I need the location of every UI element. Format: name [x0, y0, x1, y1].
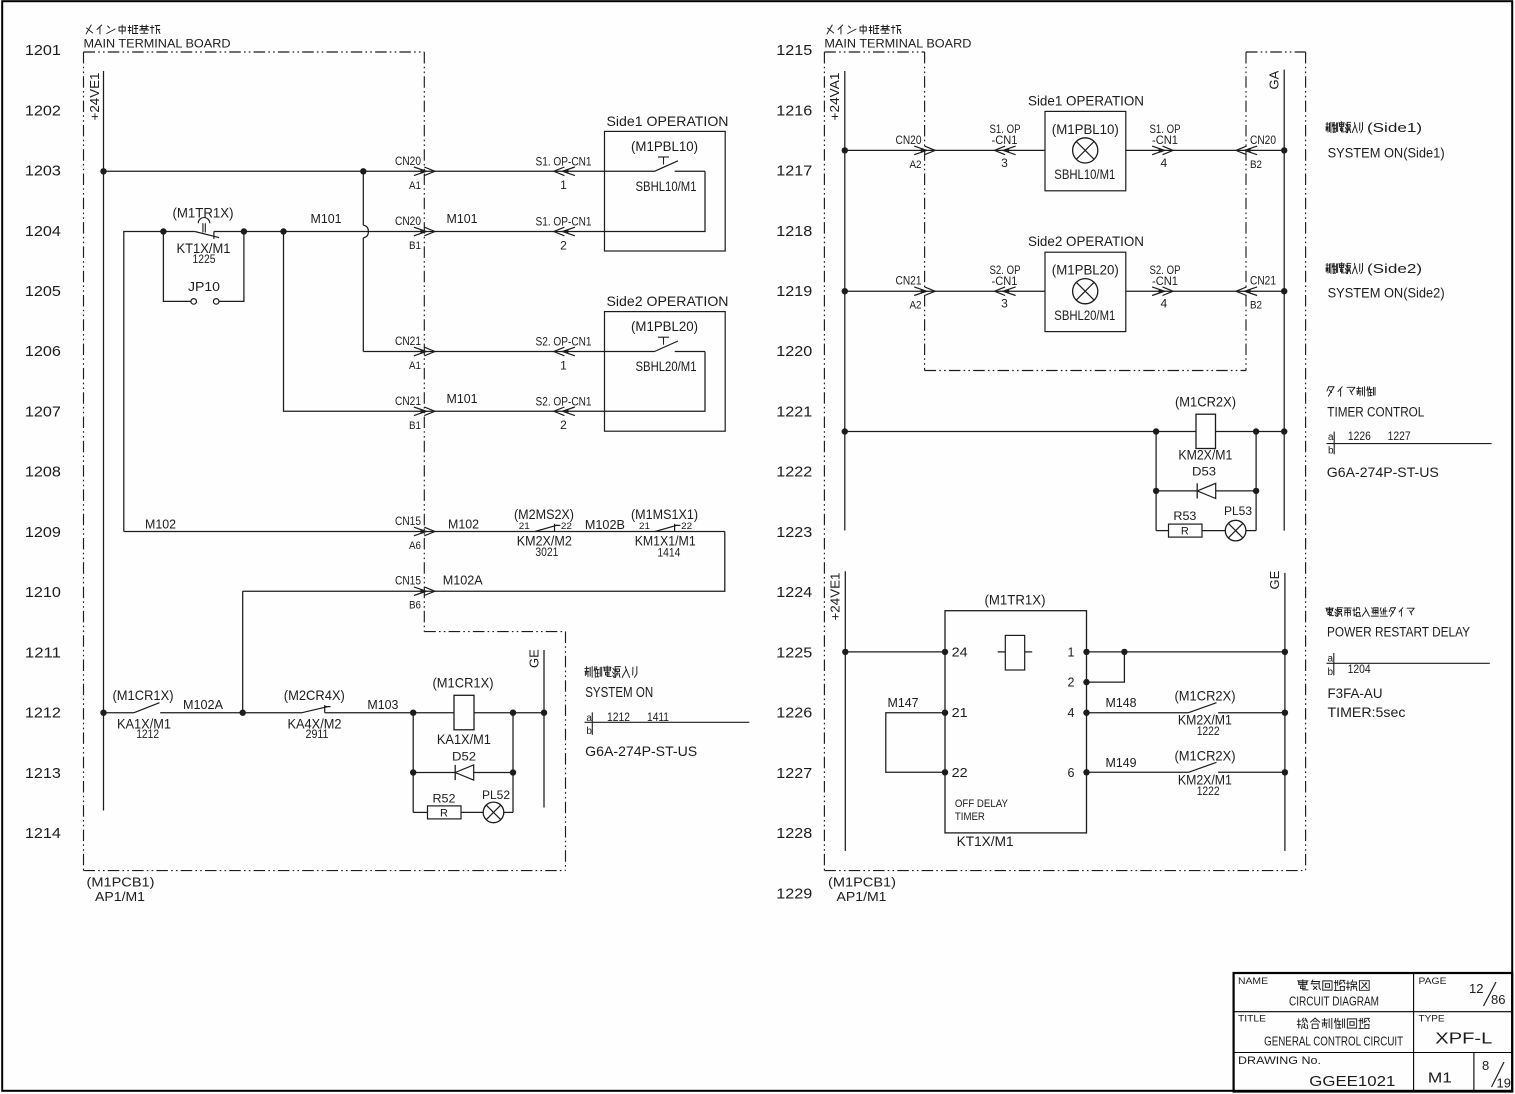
note SYSTEM ON(Side2): [1326, 262, 1445, 301]
svg-text:S1. OP-CN1: S1. OP-CN1: [536, 154, 592, 168]
svg-text:TIMER: TIMER: [955, 811, 985, 823]
svg-text:1206: 1206: [25, 343, 61, 360]
svg-text:1209: 1209: [25, 524, 61, 541]
connector S1.OP-CN1 pin 3: [990, 122, 1021, 170]
svg-text:1201: 1201: [25, 42, 61, 59]
connector CN21 pin A2: [896, 274, 936, 312]
note POWER RESTART DELAY: [1326, 607, 1490, 720]
svg-text:a: a: [1328, 432, 1334, 443]
left rung number column 1201-1214: [25, 42, 61, 842]
wire 1209 to 1210 return: [243, 532, 725, 592]
svg-text:1217: 1217: [776, 163, 812, 180]
svg-text:M102A: M102A: [443, 572, 483, 587]
svg-text:1212: 1212: [25, 705, 61, 722]
svg-text:1227: 1227: [1388, 429, 1411, 443]
svg-text:3: 3: [1001, 156, 1008, 170]
svg-text:+24VA1: +24VA1: [827, 73, 842, 121]
timer pin 21 M147 loop: [886, 695, 968, 772]
svg-text:(M1PCB1): (M1PCB1): [828, 875, 896, 890]
svg-text:(M1CR2X): (M1CR2X): [1175, 688, 1236, 704]
svg-text:CN20: CN20: [1250, 133, 1276, 147]
svg-text:MAIN TERMINAL BOARD: MAIN TERMINAL BOARD: [84, 39, 231, 51]
title block: [1234, 973, 1513, 1092]
svg-text:22: 22: [561, 521, 572, 532]
svg-text:(M2CR4X): (M2CR4X): [284, 687, 345, 703]
timer pin 24: [942, 645, 968, 659]
wire to GA CN21: [1126, 288, 1288, 294]
svg-text:CN21: CN21: [1250, 274, 1276, 288]
svg-text:22: 22: [681, 521, 692, 532]
svg-text:1213: 1213: [25, 765, 61, 782]
wire 1204 mid segment: [214, 211, 605, 235]
svg-text:A2: A2: [910, 300, 922, 312]
note SYSTEM ON reference (left): [585, 666, 750, 759]
wire to GA CN20: [1126, 147, 1288, 153]
svg-text:SBHL10/M1: SBHL10/M1: [1054, 167, 1115, 182]
svg-text:KM2X/M2: KM2X/M2: [517, 532, 572, 548]
svg-text:F3FA-AU: F3FA-AU: [1328, 685, 1383, 701]
connector CN21 pin B1: [395, 391, 478, 432]
svg-text:1205: 1205: [25, 283, 61, 300]
svg-text:1218: 1218: [776, 223, 812, 240]
svg-text:M103: M103: [367, 697, 398, 712]
svg-text:M101: M101: [311, 211, 342, 226]
svg-text:SBHL20/M1: SBHL20/M1: [1054, 308, 1115, 323]
svg-text:OFF DELAY: OFF DELAY: [955, 798, 1009, 810]
wire 1203 from +24VE1 to CN20-A1: [100, 168, 604, 174]
panel lamp SBHL10/M1 (M1PBL10): [1073, 138, 1098, 163]
svg-text:MAIN TERMINAL BOARD: MAIN TERMINAL BOARD: [824, 39, 971, 51]
diode D52: [410, 713, 516, 780]
svg-text:M148: M148: [1106, 695, 1137, 710]
svg-text:KA1X/M1: KA1X/M1: [437, 731, 491, 747]
svg-text:PL53: PL53: [1224, 504, 1252, 518]
svg-text:R: R: [1181, 526, 1189, 538]
svg-text:2: 2: [1067, 676, 1074, 690]
svg-text:JP10: JP10: [188, 279, 220, 294]
wire branch 1203 to 1206: [362, 171, 364, 351]
connector S2.OP-CN1 pin 1: [536, 335, 592, 373]
svg-text:M147: M147: [888, 695, 919, 710]
svg-text:1210: 1210: [25, 584, 61, 601]
svg-text:b: b: [1328, 667, 1334, 678]
label (M1PCB1) AP1/M1 (right): [828, 875, 896, 905]
svg-text:1224: 1224: [776, 584, 812, 601]
pilot lamp PL53: [1202, 491, 1256, 541]
lamp unit box Side2 OPERATION: [1028, 233, 1144, 331]
svg-text:A2: A2: [910, 159, 922, 171]
wire 1204 rung: [124, 228, 195, 531]
pushbutton unit box Side2 OPERATION: [605, 293, 729, 431]
svg-text:-CN1: -CN1: [1152, 133, 1178, 147]
svg-text:Side1 OPERATION: Side1 OPERATION: [1028, 92, 1144, 108]
svg-text:1204: 1204: [25, 223, 61, 240]
wire 1209 rung M102: [124, 517, 725, 532]
svg-text:(Side1): (Side1): [1367, 121, 1422, 135]
svg-text:(M1TR1X): (M1TR1X): [173, 205, 234, 221]
svg-text:(Side2): (Side2): [1367, 262, 1422, 276]
svg-text:D52: D52: [452, 750, 476, 764]
svg-text:1: 1: [1067, 645, 1074, 659]
svg-text:1228: 1228: [776, 825, 812, 842]
svg-text:2: 2: [560, 418, 567, 432]
svg-text:1216: 1216: [776, 102, 812, 119]
svg-text:AP1/M1: AP1/M1: [837, 889, 887, 904]
connector S1.OP-CN1 pin 4: [1150, 122, 1181, 170]
svg-text:D53: D53: [1192, 465, 1216, 479]
svg-text:-CN1: -CN1: [992, 274, 1018, 288]
label MAIN TERMINAL BOARD (right): [824, 25, 971, 51]
svg-text:PL52: PL52: [482, 788, 510, 802]
svg-text:R53: R53: [1173, 509, 1196, 523]
relay contact KM2X/M1 (M1CR2X) 1222 on 1227: [1175, 747, 1289, 798]
svg-text:(M1CR1X): (M1CR1X): [113, 687, 174, 703]
resistor R53: [1156, 491, 1202, 538]
svg-text:A6: A6: [409, 540, 421, 552]
diode D53: [1153, 432, 1259, 499]
svg-text:19: 19: [1497, 1076, 1511, 1091]
svg-text:Side2 OPERATION: Side2 OPERATION: [1028, 233, 1144, 249]
svg-text:(M2MS2X): (M2MS2X): [514, 506, 574, 522]
svg-text:SYSTEM ON: SYSTEM ON: [585, 685, 653, 701]
relay contact KM2X/M1 (M1CR2X) 1222 on 1226: [1175, 688, 1289, 739]
svg-text:B2: B2: [1250, 159, 1262, 171]
label MAIN TERMINAL BOARD (left): [84, 25, 231, 51]
svg-text:(M1CR1X): (M1CR1X): [433, 675, 494, 691]
timer pin 1: [1067, 645, 1089, 659]
svg-text:21: 21: [639, 521, 650, 532]
connector S2.OP-CN1 pin 3: [990, 263, 1021, 311]
svg-text:R52: R52: [433, 792, 456, 806]
svg-text:21: 21: [519, 521, 530, 532]
svg-text:21: 21: [952, 706, 968, 720]
svg-text:1203: 1203: [25, 163, 61, 180]
svg-text:(M1PBL10): (M1PBL10): [1052, 122, 1119, 137]
connector CN20 pin B1: [395, 211, 478, 252]
svg-text:-CN1: -CN1: [992, 133, 1018, 147]
svg-text:1204: 1204: [1348, 662, 1371, 676]
connector CN20 pin B2: [1236, 133, 1276, 171]
svg-text:GE: GE: [527, 649, 542, 668]
svg-text:3021: 3021: [535, 547, 558, 559]
svg-text:1223: 1223: [776, 524, 812, 541]
svg-text:M102A: M102A: [183, 697, 223, 712]
connector S1.OP-CN1 pin 2: [536, 215, 592, 253]
svg-text:8: 8: [1482, 1058, 1489, 1073]
wire 1225 from +24VE1 to pin 24: [842, 649, 945, 655]
right rung number column 1215-1229: [776, 42, 812, 902]
svg-text:SBHL20/M1: SBHL20/M1: [636, 359, 697, 374]
wire 1212 to GE: [510, 710, 547, 716]
svg-text:2: 2: [560, 238, 567, 252]
svg-text:GE: GE: [1267, 570, 1282, 589]
connector S2.OP-CN1 pin 4: [1150, 263, 1181, 311]
svg-text:1: 1: [560, 178, 567, 192]
pushbutton SBHL10/M1 (M1PBL10): [605, 157, 706, 232]
svg-text:1214: 1214: [25, 825, 61, 842]
note SYSTEM ON(Side1): [1326, 121, 1445, 161]
wire pin 1 to GE: [1087, 649, 1289, 655]
timer pin 4: [1067, 706, 1089, 720]
relay contact KA4X/M2 (M2CR4X) 2911: [284, 687, 413, 741]
svg-text:CN20: CN20: [896, 133, 922, 147]
svg-text:A1: A1: [409, 180, 421, 192]
bus GE (right): [1267, 570, 1285, 851]
connector CN15 pin A6: [395, 514, 479, 552]
board boundary M1PCB1 (right, dash-dot): [824, 52, 1305, 871]
svg-text:(M1TR1X): (M1TR1X): [985, 592, 1046, 608]
svg-text:GGEE1021: GGEE1021: [1309, 1073, 1395, 1090]
svg-text:+24VE1: +24VE1: [828, 573, 843, 621]
svg-text:24: 24: [952, 645, 968, 659]
pushbutton SBHL20/M1 (M1PBL20): [605, 337, 706, 411]
svg-text:B1: B1: [409, 420, 421, 432]
limit switch contact KM2X/M2 (M2MS2X) 21-22 3021: [514, 506, 625, 559]
svg-text:SBHL10/M1: SBHL10/M1: [636, 179, 697, 194]
svg-text:M1: M1: [1428, 1070, 1452, 1087]
svg-text:B6: B6: [409, 600, 421, 612]
svg-text:B1: B1: [409, 240, 421, 252]
svg-text:KM2X/M1: KM2X/M1: [1178, 447, 1232, 463]
bus GA: [1267, 70, 1285, 531]
relay contact KA1X/M1 (M1CR1X) 1212: [113, 687, 243, 741]
resistor R52: [413, 773, 461, 820]
svg-text:A1: A1: [409, 360, 421, 372]
connector CN20 pin A2: [896, 133, 936, 171]
off-delay timer unit KT1X/M1 (M1TR1X): [945, 592, 1087, 850]
power bus +24VA1: [827, 71, 845, 530]
svg-text:1211: 1211: [25, 644, 61, 661]
lamp unit box Side1 OPERATION: [1028, 92, 1144, 190]
svg-text:(M1CR2X): (M1CR2X): [1175, 747, 1236, 763]
svg-text:3: 3: [1001, 297, 1008, 311]
svg-text:CN15: CN15: [395, 574, 421, 588]
svg-text:G6A-274P-ST-US: G6A-274P-ST-US: [1327, 464, 1439, 480]
svg-text:CN21: CN21: [395, 334, 421, 348]
svg-text:1414: 1414: [657, 548, 681, 560]
svg-text:M101: M101: [447, 391, 478, 406]
wire CN20 lamp rung: [842, 147, 1045, 153]
wire M148 rung 1226: [1087, 695, 1189, 713]
svg-text:AP1/M1: AP1/M1: [95, 889, 145, 904]
wire CN21 lamp rung: [842, 288, 1045, 294]
svg-text:6: 6: [1067, 766, 1074, 780]
power bus +24VE1 (right): [828, 571, 846, 851]
svg-text:R: R: [440, 807, 448, 819]
timer coil symbol: [998, 635, 1032, 670]
svg-text:Side2 OPERATION: Side2 OPERATION: [607, 293, 729, 309]
svg-text:1227: 1227: [776, 765, 812, 782]
connector S2.OP-CN1 pin 2: [536, 394, 592, 432]
svg-text:1229: 1229: [776, 885, 812, 902]
svg-text:4: 4: [1067, 706, 1074, 720]
svg-text:1222: 1222: [776, 464, 812, 481]
svg-text:(M1MS1X1): (M1MS1X1): [631, 506, 698, 522]
board boundary M1PCB1 (left, dash-dot): [84, 52, 566, 871]
relay coil KA1X/M1 (M1CR1X): [410, 675, 513, 748]
svg-text:22: 22: [952, 766, 968, 780]
wire branch 1204 to 1207: [284, 232, 605, 412]
svg-text:1207: 1207: [25, 404, 61, 421]
svg-text:Side1 OPERATION: Side1 OPERATION: [607, 113, 729, 129]
svg-text:B2: B2: [1250, 300, 1262, 312]
svg-text:1222: 1222: [1197, 726, 1220, 738]
wire M149 rung 1227: [1087, 755, 1189, 773]
svg-text:M102: M102: [448, 517, 479, 532]
svg-text:M102B: M102B: [585, 517, 625, 532]
svg-text:4: 4: [1160, 156, 1167, 170]
svg-text:1202: 1202: [25, 102, 61, 119]
connector S1.OP-CN1 pin 1: [536, 154, 592, 192]
connector CN20 pin A1: [395, 154, 435, 192]
svg-text:GENERAL CONTROL CIRCUIT: GENERAL CONTROL CIRCUIT: [1264, 1034, 1403, 1049]
svg-text:KT1X/M1: KT1X/M1: [957, 833, 1014, 849]
wire hop (branch crosses 1204): [363, 225, 368, 238]
svg-text:(M1PBL10): (M1PBL10): [631, 139, 698, 154]
svg-text:86: 86: [1491, 992, 1505, 1007]
pushbutton unit box Side1 OPERATION: [605, 113, 729, 251]
svg-text:(M1CR2X): (M1CR2X): [1175, 394, 1236, 410]
svg-text:M149: M149: [1106, 755, 1137, 770]
svg-text:1208: 1208: [25, 464, 61, 481]
timer pin 2 loop: [1067, 652, 1124, 690]
svg-text:CIRCUIT DIAGRAM: CIRCUIT DIAGRAM: [1289, 994, 1379, 1009]
svg-text:DRAWING No.: DRAWING No.: [1238, 1055, 1321, 1067]
panel lamp SBHL20/M1 (M1PBL20): [1073, 279, 1098, 304]
svg-text:XPF-L: XPF-L: [1435, 1031, 1492, 1048]
svg-text:M101: M101: [447, 211, 478, 226]
svg-text:TYPE: TYPE: [1419, 1014, 1445, 1025]
jumper JP10: [163, 232, 244, 305]
connector CN15 pin B6: [395, 574, 435, 612]
relay coil KM2X/M1 (M1CR2X): [1175, 394, 1236, 463]
svg-text:1220: 1220: [776, 343, 812, 360]
svg-text:S1. OP-CN1: S1. OP-CN1: [536, 215, 592, 229]
label (M1PCB1) AP1/M1 (left): [87, 875, 155, 905]
svg-text:S2. OP-CN1: S2. OP-CN1: [536, 394, 592, 408]
connector CN21 pin A1: [395, 334, 435, 372]
svg-text:1212: 1212: [136, 729, 159, 741]
wire 1206 to CN21-A1: [363, 351, 604, 353]
svg-text:1225: 1225: [776, 644, 812, 661]
wire M102A down to 1212: [242, 591, 244, 713]
svg-text:-CN1: -CN1: [1152, 274, 1178, 288]
svg-text:NAME: NAME: [1238, 976, 1268, 987]
svg-text:(M1PBL20): (M1PBL20): [631, 319, 698, 334]
wire 1221 timer-control rung: [842, 428, 1288, 434]
svg-text:KM1X1/M1: KM1X1/M1: [635, 532, 696, 548]
svg-text:CN15: CN15: [395, 514, 421, 528]
note TIMER CONTROL: [1327, 387, 1492, 480]
svg-text:(M1PBL20): (M1PBL20): [1052, 263, 1119, 278]
svg-text:(M1PCB1): (M1PCB1): [87, 875, 155, 890]
connector CN21 pin B2: [1236, 274, 1276, 312]
svg-text:CN20: CN20: [395, 214, 421, 228]
svg-text:1221: 1221: [776, 404, 812, 421]
svg-text:12: 12: [1469, 981, 1483, 996]
svg-text:TITLE: TITLE: [1238, 1014, 1266, 1025]
svg-text:PAGE: PAGE: [1419, 976, 1447, 987]
svg-text:2911: 2911: [306, 729, 329, 741]
bus GE (left): [527, 649, 545, 808]
svg-text:4: 4: [1160, 297, 1167, 311]
svg-text:1226: 1226: [1348, 429, 1371, 443]
svg-text:b: b: [1328, 445, 1334, 456]
svg-text:1: 1: [560, 358, 567, 372]
svg-text:TIMER:5sec: TIMER:5sec: [1328, 704, 1406, 720]
svg-text:b: b: [586, 726, 592, 737]
svg-text:CN21: CN21: [395, 394, 421, 408]
svg-text:1226: 1226: [776, 705, 812, 722]
limit switch contact KM1X1/M1 (M1MS1X1) 21-22 1414: [631, 506, 698, 560]
timer pin 6: [1067, 766, 1089, 780]
svg-text:M102: M102: [145, 517, 176, 532]
svg-text:1215: 1215: [776, 42, 812, 59]
svg-text:SYSTEM ON(Side1): SYSTEM ON(Side1): [1328, 146, 1445, 161]
power bus +24VE1 (left): [87, 71, 104, 811]
svg-text:CN21: CN21: [896, 274, 922, 288]
svg-text:1222: 1222: [1197, 786, 1220, 798]
timer pin 22: [942, 766, 968, 780]
wire 1212 rung start: [100, 710, 134, 716]
svg-text:S2. OP-CN1: S2. OP-CN1: [536, 335, 592, 349]
node M102A junction: [240, 710, 303, 716]
svg-text:1219: 1219: [776, 283, 812, 300]
svg-text:G6A-274P-ST-US: G6A-274P-ST-US: [585, 743, 697, 759]
svg-text:1225: 1225: [193, 254, 216, 266]
pilot lamp PL52: [461, 773, 513, 823]
svg-text:GA: GA: [1267, 70, 1282, 89]
svg-text:CN20: CN20: [395, 154, 421, 168]
svg-text:SYSTEM ON(Side2): SYSTEM ON(Side2): [1328, 286, 1445, 301]
timer NC contact KT1X/M1 (M1TR1X) 1225: [173, 205, 234, 267]
svg-text:+24VE1: +24VE1: [87, 73, 102, 121]
svg-text:POWER RESTART DELAY: POWER RESTART DELAY: [1327, 625, 1470, 640]
svg-text:TIMER CONTROL: TIMER CONTROL: [1327, 405, 1424, 420]
